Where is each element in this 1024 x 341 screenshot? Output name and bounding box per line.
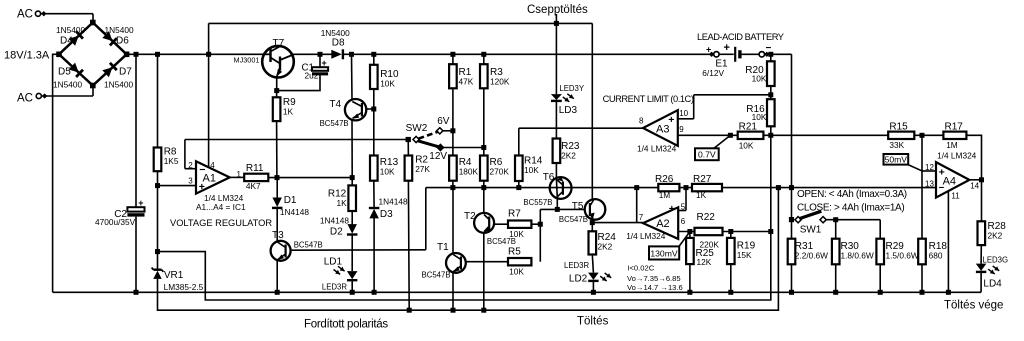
- svg-text:13: 13: [925, 180, 934, 189]
- svg-text:15K: 15K: [737, 250, 752, 260]
- svg-text:T2: T2: [464, 211, 476, 222]
- svg-text:R22: R22: [697, 212, 716, 223]
- svg-text:A2: A2: [656, 218, 669, 230]
- svg-text:0.7V: 0.7V: [698, 149, 716, 159]
- svg-text:6/12V: 6/12V: [702, 68, 724, 78]
- svg-text:27K: 27K: [415, 164, 430, 174]
- svg-text:D1: D1: [284, 195, 297, 206]
- svg-text:D2: D2: [330, 226, 343, 237]
- svg-text:VOLTAGE REGULATOR: VOLTAGE REGULATOR: [170, 218, 272, 228]
- svg-text:130mV: 130mV: [650, 248, 677, 258]
- svg-text:+: +: [669, 203, 675, 215]
- svg-text:T7: T7: [273, 38, 285, 49]
- svg-text:3: 3: [188, 177, 193, 186]
- svg-text:Vo→7.35→6.85: Vo→7.35→6.85: [627, 274, 681, 283]
- svg-text:MJ3001: MJ3001: [234, 56, 260, 65]
- svg-text:D7: D7: [119, 67, 132, 78]
- svg-text:R15: R15: [889, 122, 908, 133]
- svg-text:D3: D3: [380, 209, 393, 220]
- svg-text:1N4148: 1N4148: [379, 197, 408, 207]
- svg-text:680: 680: [929, 251, 943, 261]
- svg-text:2K2: 2K2: [561, 150, 576, 160]
- svg-text:LD1: LD1: [324, 257, 343, 268]
- svg-text:4700u/35V: 4700u/35V: [95, 217, 136, 227]
- svg-text:R27: R27: [693, 174, 712, 185]
- svg-text:LD4: LD4: [983, 279, 1002, 290]
- svg-text:D6: D6: [116, 36, 129, 47]
- svg-text:R26: R26: [655, 174, 674, 185]
- svg-text:1N4148: 1N4148: [280, 207, 309, 217]
- svg-text:6V: 6V: [437, 116, 450, 127]
- svg-text:AC: AC: [17, 8, 33, 20]
- svg-text:1/4 LM324: 1/4 LM324: [626, 231, 666, 241]
- svg-text:12K: 12K: [697, 257, 712, 267]
- svg-text:47K: 47K: [459, 77, 474, 87]
- svg-text:A3: A3: [656, 123, 669, 135]
- svg-text:BC547B: BC547B: [559, 215, 588, 224]
- svg-text:LD2: LD2: [569, 274, 588, 285]
- svg-text:1K5: 1K5: [164, 156, 179, 166]
- svg-text:1N5400: 1N5400: [105, 25, 134, 35]
- svg-text:1.8/0.6W: 1.8/0.6W: [841, 251, 874, 261]
- svg-text:4: 4: [210, 161, 215, 170]
- svg-text:1K: 1K: [337, 198, 348, 208]
- svg-text:1: 1: [237, 170, 242, 179]
- svg-text:LED3G: LED3G: [983, 256, 1009, 265]
- svg-text:D4: D4: [60, 36, 73, 47]
- svg-text:18V/1.3A: 18V/1.3A: [4, 50, 50, 62]
- svg-text:R7: R7: [508, 209, 521, 220]
- svg-text:SW2: SW2: [406, 123, 428, 134]
- svg-text:Töltés: Töltés: [577, 316, 609, 328]
- svg-text:BC547B: BC547B: [320, 119, 349, 128]
- svg-text:10K: 10K: [524, 165, 539, 175]
- svg-text:+: +: [724, 42, 730, 54]
- svg-text:Fordított polaritás: Fordított polaritás: [304, 319, 388, 331]
- svg-text:CURRENT LIMIT (0.1C): CURRENT LIMIT (0.1C): [603, 94, 694, 104]
- svg-text:2K2: 2K2: [598, 242, 613, 252]
- svg-text:T3: T3: [272, 230, 284, 241]
- svg-text:1N5400: 1N5400: [104, 80, 133, 90]
- svg-text:12: 12: [925, 163, 934, 172]
- svg-text:Csepptöltés: Csepptöltés: [527, 4, 588, 16]
- svg-text:10K: 10K: [752, 73, 767, 83]
- svg-text:T6: T6: [543, 172, 555, 183]
- svg-text:CLOSE: > 4Ah (Imax=1A): CLOSE: > 4Ah (Imax=1A): [797, 202, 904, 213]
- svg-text:LD3: LD3: [559, 105, 578, 116]
- svg-text:D8: D8: [332, 37, 345, 48]
- svg-text:D5: D5: [58, 67, 71, 78]
- svg-text:Vo→14.7 →13.6: Vo→14.7 →13.6: [627, 283, 683, 292]
- svg-text:+: +: [322, 58, 327, 68]
- svg-text:LED3Y: LED3Y: [559, 84, 585, 93]
- svg-text:11: 11: [951, 191, 960, 200]
- svg-text:1/4 LM324: 1/4 LM324: [637, 144, 677, 154]
- svg-text:10: 10: [679, 109, 688, 118]
- svg-text:2: 2: [188, 161, 193, 170]
- svg-text:1K: 1K: [283, 107, 294, 117]
- svg-text:10K: 10K: [739, 140, 754, 150]
- svg-text:1K: 1K: [696, 190, 707, 200]
- svg-text:VR1: VR1: [164, 270, 184, 281]
- svg-text:SW1: SW1: [800, 225, 822, 236]
- svg-text:OPEN: < 4Ah (Imax=0.3A): OPEN: < 4Ah (Imax=0.3A): [797, 189, 907, 200]
- svg-text:A1: A1: [203, 173, 216, 185]
- svg-text:BC547B: BC547B: [294, 241, 323, 250]
- svg-text:1M: 1M: [659, 190, 671, 200]
- svg-text:I<0.02C: I<0.02C: [627, 264, 654, 273]
- svg-text:9: 9: [679, 125, 684, 134]
- svg-text:LED3R: LED3R: [564, 261, 590, 270]
- svg-text:10K: 10K: [380, 167, 395, 177]
- svg-text:A1...A4 = IC1: A1...A4 = IC1: [196, 202, 246, 212]
- svg-text:7: 7: [639, 213, 644, 222]
- svg-text:AC: AC: [17, 93, 33, 105]
- svg-text:T4: T4: [329, 99, 341, 110]
- svg-text:T5: T5: [572, 201, 584, 212]
- svg-text:2u2: 2u2: [305, 70, 319, 80]
- svg-text:1/4 LM324: 1/4 LM324: [937, 150, 977, 160]
- svg-text:+: +: [138, 198, 143, 208]
- svg-text:1N4148: 1N4148: [320, 216, 349, 226]
- svg-text:1M: 1M: [946, 140, 958, 150]
- svg-text:14: 14: [970, 181, 979, 190]
- svg-text:R17: R17: [945, 122, 964, 133]
- svg-text:2K2: 2K2: [988, 231, 1003, 241]
- svg-text:A4: A4: [943, 176, 956, 188]
- svg-text:LEAD-ACID BATTERY: LEAD-ACID BATTERY: [697, 32, 784, 42]
- svg-text:BC557B: BC557B: [523, 198, 552, 207]
- svg-text:LED3R: LED3R: [322, 283, 348, 292]
- svg-text:1.5/0.6W: 1.5/0.6W: [886, 251, 919, 261]
- svg-text:LM385-2.5: LM385-2.5: [164, 282, 204, 292]
- svg-text:BC547B: BC547B: [422, 271, 451, 280]
- svg-text:220K: 220K: [700, 239, 720, 249]
- svg-text:1N5400: 1N5400: [53, 80, 82, 90]
- svg-text:50mV: 50mV: [885, 154, 908, 164]
- svg-text:120K: 120K: [490, 77, 510, 87]
- svg-text:5: 5: [681, 203, 686, 212]
- svg-text:BC547B: BC547B: [487, 237, 516, 246]
- svg-text:33K: 33K: [889, 140, 904, 150]
- svg-text:12V: 12V: [429, 151, 447, 162]
- svg-text:270K: 270K: [490, 167, 510, 177]
- svg-text:10K: 10K: [380, 79, 395, 89]
- svg-text:T1: T1: [437, 242, 449, 253]
- svg-text:R21: R21: [739, 121, 758, 132]
- svg-text:Töltés vége: Töltés vége: [944, 300, 1003, 312]
- svg-text:R11: R11: [246, 163, 264, 174]
- svg-text:6: 6: [681, 217, 686, 226]
- svg-text:10K: 10K: [509, 267, 524, 277]
- svg-text:2.2/0.6W: 2.2/0.6W: [795, 251, 828, 261]
- svg-text:4K7: 4K7: [246, 181, 261, 191]
- svg-text:8: 8: [639, 116, 644, 125]
- svg-text:180K: 180K: [459, 167, 479, 177]
- svg-text:1N5400: 1N5400: [56, 25, 85, 35]
- svg-text:R5: R5: [508, 246, 521, 257]
